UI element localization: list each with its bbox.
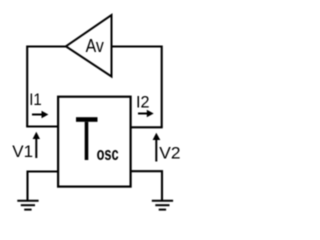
svg-text:I2: I2 <box>136 93 150 112</box>
ground right <box>152 201 173 210</box>
arrow V2 voltage <box>155 140 157 162</box>
op-amp Av <box>66 15 112 77</box>
arrow I1 current <box>32 114 43 116</box>
svg-text:V2: V2 <box>159 144 180 163</box>
arrow I2 current <box>138 113 148 115</box>
svg-text:osc: osc <box>97 143 119 164</box>
svg-text:Av: Av <box>86 36 104 56</box>
wire node I2 to block right <box>131 126 163 128</box>
wire top-left from loop corner to amp input <box>27 47 66 127</box>
Tosc T-bar <box>76 117 98 122</box>
svg-text:V1: V1 <box>12 142 33 161</box>
ground left <box>17 201 38 210</box>
wire block right to right ground <box>131 171 163 200</box>
arrow V1 voltage <box>35 139 37 158</box>
oscillator block Tosc <box>58 97 131 187</box>
wire amp output to top-right corner down to I2 node <box>112 47 162 128</box>
svg-text:I1: I1 <box>29 90 42 109</box>
Tosc T-stem <box>85 122 89 160</box>
wire block left to left ground <box>28 172 59 201</box>
wire node I1 to block left <box>26 125 58 127</box>
